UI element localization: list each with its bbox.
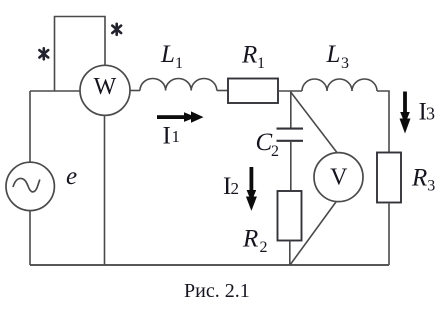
- resistor R1: [228, 79, 278, 104]
- svg-text:e: e: [66, 163, 77, 190]
- wire wattmeter to L1: [130, 90, 140, 92]
- capacitor C2: [277, 128, 304, 130]
- current arrow I3: [400, 92, 411, 134]
- svg-text:1: 1: [172, 127, 181, 146]
- wire left rail lower: [29, 211, 31, 266]
- voltmeter U2 (V): [314, 153, 363, 202]
- svg-text:1: 1: [175, 55, 183, 72]
- wire top-left from left rail to wattmeter: [30, 90, 80, 92]
- svg-text:2: 2: [260, 239, 268, 256]
- resistor R2: [278, 191, 302, 241]
- polarity asterisk left: [39, 48, 48, 59]
- AC source e: [6, 162, 54, 210]
- svg-text:3: 3: [426, 104, 435, 124]
- current arrow I1: [157, 111, 204, 122]
- svg-text:C: C: [256, 129, 273, 156]
- current arrow I2: [246, 167, 257, 211]
- svg-text:V: V: [330, 164, 348, 190]
- svg-text:R: R: [242, 226, 258, 253]
- svg-text:R: R: [241, 42, 257, 69]
- wire diagonal node A to voltmeter: [290, 92, 337, 154]
- svg-text:Рис. 2.1: Рис. 2.1: [184, 280, 250, 302]
- wire R1 to node A: [278, 90, 302, 92]
- wire C2 to R2: [290, 141, 292, 191]
- svg-text:R: R: [411, 164, 427, 191]
- wire left rail upper: [29, 91, 31, 162]
- wire R3 to bottom rail: [388, 203, 390, 266]
- svg-text:L: L: [326, 41, 341, 68]
- svg-text:I: I: [163, 123, 171, 150]
- wire wattmeter voltage loop: [55, 17, 106, 92]
- wire wattmeter to bottom rail: [104, 115, 106, 265]
- svg-text:3: 3: [341, 55, 349, 72]
- resistor R3: [377, 153, 401, 203]
- wire L1 to R1: [217, 90, 228, 92]
- inductor L1: [140, 79, 217, 91]
- svg-text:2: 2: [271, 143, 279, 160]
- svg-text:2: 2: [231, 179, 240, 198]
- inductor L3: [302, 79, 377, 91]
- polarity asterisk right: [112, 24, 121, 35]
- wire R2 to bottom rail: [289, 241, 291, 266]
- wire bottom rail: [30, 264, 389, 266]
- wattmeter U1 (W): [80, 65, 130, 115]
- wire diagonal voltmeter to bottom node: [290, 202, 336, 265]
- svg-text:W: W: [94, 74, 117, 100]
- svg-text:L: L: [160, 41, 175, 68]
- svg-text:3: 3: [427, 178, 435, 195]
- svg-text:1: 1: [257, 55, 265, 72]
- wire L3 to right rail: [377, 91, 389, 153]
- wire node A down to C2: [290, 91, 292, 129]
